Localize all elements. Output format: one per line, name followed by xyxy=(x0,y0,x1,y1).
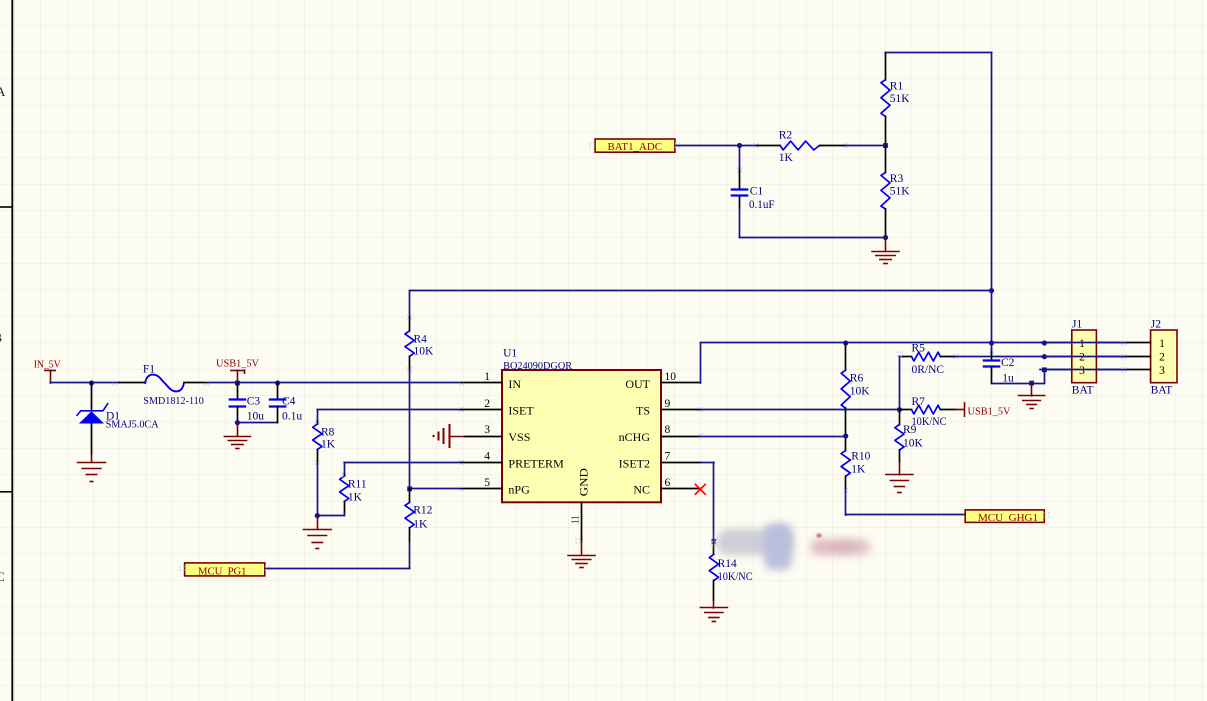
node J1 pin3 junction xyxy=(1042,367,1047,372)
ground under D1 xyxy=(91,454,93,462)
svg-text:C: C xyxy=(0,569,5,584)
svg-text:51K: 51K xyxy=(890,93,911,105)
svg-text:R10: R10 xyxy=(851,451,870,463)
svg-text:3: 3 xyxy=(1159,365,1165,377)
svg-text:BAT: BAT xyxy=(1151,385,1173,397)
wire C3-C4 bottom xyxy=(237,422,277,424)
svg-text:IN: IN xyxy=(508,377,521,391)
capacitor C3 xyxy=(237,383,239,399)
svg-text:BQ24090DGQR: BQ24090DGQR xyxy=(503,360,573,372)
svg-text:IN_5V: IN_5V xyxy=(34,359,61,370)
svg-text:R3: R3 xyxy=(890,173,904,185)
svg-text:1u: 1u xyxy=(1002,372,1014,384)
svg-text:1: 1 xyxy=(1079,338,1085,350)
ground under C3 xyxy=(237,423,239,437)
pin 5 nPG xyxy=(462,488,503,490)
svg-text:TS: TS xyxy=(636,404,650,418)
capacitor C4 xyxy=(277,383,279,399)
resistor R8 xyxy=(317,410,319,422)
wire R11 bottom to ground node xyxy=(344,513,346,515)
node J1 pin1 junction xyxy=(1042,340,1047,345)
node R14 junction xyxy=(712,539,717,544)
wire TS row xyxy=(701,409,900,411)
wire top battery rail xyxy=(885,52,887,53)
zone divider tick 1 xyxy=(0,206,12,208)
node D1 junction xyxy=(89,380,94,385)
wire R2-R1R3 xyxy=(846,145,886,147)
node TS junction xyxy=(897,407,902,412)
svg-text:0.1u: 0.1u xyxy=(282,411,302,423)
svg-text:A: A xyxy=(0,84,6,99)
wire input rail right xyxy=(208,382,462,384)
svg-text:PRETERM: PRETERM xyxy=(508,456,564,470)
svg-text:1K: 1K xyxy=(851,464,866,476)
svg-text:7: 7 xyxy=(665,451,671,463)
svg-text:1K: 1K xyxy=(413,519,428,531)
svg-text:10K: 10K xyxy=(850,386,871,398)
resistor R2 xyxy=(757,145,780,147)
pin 10 OUT xyxy=(661,382,701,384)
svg-text:SMAJ5.0CA: SMAJ5.0CA xyxy=(106,419,159,431)
resistor R1 xyxy=(885,54,887,80)
wire nPG to chip xyxy=(410,488,462,490)
power port USB1_5V xyxy=(231,370,245,372)
wire ISET2 to R14 xyxy=(701,462,714,464)
node J1 pin2 junction xyxy=(1042,354,1047,359)
svg-text:10K/NC: 10K/NC xyxy=(912,416,947,428)
svg-text:1K: 1K xyxy=(321,438,336,450)
resistor R7 xyxy=(901,409,912,411)
svg-text:11: 11 xyxy=(570,516,582,524)
wire OUT to battery row xyxy=(700,343,702,383)
earth symbol at VSS pin 3 xyxy=(449,436,464,438)
wire row2 overlay xyxy=(1040,356,1126,358)
svg-text:R4: R4 xyxy=(414,334,428,346)
svg-text:R5: R5 xyxy=(912,343,926,355)
resistor R5 xyxy=(903,356,912,358)
ground under pin 11 xyxy=(581,541,583,555)
node main vertical row1 junction xyxy=(989,340,994,345)
power port USB1_5V right xyxy=(955,409,964,411)
wire nCHG row xyxy=(701,436,846,438)
pin 8 nCHG xyxy=(661,436,701,438)
svg-text:F1: F1 xyxy=(143,364,155,376)
node main vertical junction xyxy=(989,288,994,293)
wire battery sense horizontal xyxy=(410,290,992,292)
ground under C2 xyxy=(1031,383,1033,396)
svg-text:C1: C1 xyxy=(750,186,764,198)
pin 2 ISET xyxy=(462,409,503,411)
svg-text:J2: J2 xyxy=(1151,318,1161,330)
svg-text:R11: R11 xyxy=(348,478,367,490)
wire row2 to J connectors xyxy=(955,356,1126,358)
wire row3 drop xyxy=(1044,370,1046,383)
wire row1 overlay xyxy=(1040,342,1126,344)
svg-text:ISET2: ISET2 xyxy=(619,456,650,470)
node R8/R11 ground junction xyxy=(315,513,320,518)
wire PRETERM to R11 xyxy=(344,462,461,464)
resistor R3 xyxy=(885,146,887,173)
wire row3 to J connectors xyxy=(1044,369,1126,371)
ground under R8 xyxy=(317,516,319,530)
pin 6 NC xyxy=(661,488,701,490)
node C2 ground junction xyxy=(1029,381,1034,386)
node nPG junction xyxy=(407,486,412,491)
svg-text:nPG: nPG xyxy=(508,483,530,497)
svg-text:8: 8 xyxy=(665,424,671,436)
node R6 top junction xyxy=(843,340,848,345)
svg-text:6: 6 xyxy=(665,477,671,489)
wire C2 bottom xyxy=(992,383,1045,385)
svg-text:10: 10 xyxy=(665,371,677,383)
J2 pin lines xyxy=(1126,342,1151,344)
op-amp U1 body BQ24090DGQR xyxy=(502,370,661,502)
grid snap markers xyxy=(112,380,117,385)
svg-text:10K/NC: 10K/NC xyxy=(718,571,753,583)
svg-text:USB1_5V: USB1_5V xyxy=(216,359,259,370)
resistor R6 xyxy=(845,344,847,370)
svg-text:GND: GND xyxy=(577,468,591,496)
node C1 junction xyxy=(737,143,742,148)
watermark blur blobs xyxy=(716,529,794,555)
svg-text:0R/NC: 0R/NC xyxy=(912,364,945,376)
svg-text:2: 2 xyxy=(1079,352,1085,364)
svg-text:R7: R7 xyxy=(912,396,926,408)
svg-text:3: 3 xyxy=(484,424,490,436)
sheet border line xyxy=(11,0,13,701)
pin 3 VSS xyxy=(465,436,503,438)
svg-text:MCU_PG1: MCU_PG1 xyxy=(198,565,247,577)
svg-text:R9: R9 xyxy=(903,424,917,436)
svg-text:VSS: VSS xyxy=(508,430,530,444)
node R3/C1 ground junction xyxy=(883,235,888,240)
svg-text:USB1_5V: USB1_5V xyxy=(968,407,1011,418)
svg-text:1K: 1K xyxy=(779,152,794,164)
svg-text:C3: C3 xyxy=(247,396,261,408)
svg-text:B: B xyxy=(0,330,3,345)
ground under R14 xyxy=(713,600,715,608)
pin 4 PRETERM xyxy=(462,462,503,464)
node R2/R1/R3 junction xyxy=(883,143,888,148)
svg-text:R8: R8 xyxy=(321,426,335,438)
svg-text:1K: 1K xyxy=(348,491,363,503)
no-connect X at pin 6 xyxy=(695,484,705,494)
svg-text:10K: 10K xyxy=(414,345,435,357)
wire input rail left xyxy=(50,382,119,384)
svg-text:3: 3 xyxy=(1079,365,1085,377)
wire R12 to MCU_PG1 xyxy=(409,541,411,568)
svg-text:U1: U1 xyxy=(503,347,517,359)
net label MCU_PG1 xyxy=(185,563,265,576)
node C3 junction xyxy=(235,381,240,386)
capacitor C1 xyxy=(739,146,741,171)
wire C1 bottom to ground node xyxy=(739,208,741,238)
svg-text:1: 1 xyxy=(1159,338,1165,350)
svg-text:9: 9 xyxy=(665,398,671,410)
wire R8 to ground node xyxy=(317,464,319,516)
fuse F1 xyxy=(119,382,145,384)
connector J2 xyxy=(1151,330,1177,383)
ground under R9 xyxy=(899,462,901,475)
svg-text:BAT1_ADC: BAT1_ADC xyxy=(608,141,663,153)
svg-text:ISET: ISET xyxy=(508,404,534,418)
svg-text:nCHG: nCHG xyxy=(619,430,651,444)
svg-text:4: 4 xyxy=(484,451,490,463)
wire R6-R10 through nCHG xyxy=(845,410,847,450)
svg-text:R2: R2 xyxy=(779,129,793,141)
zone divider tick 2 xyxy=(0,491,12,493)
svg-text:1: 1 xyxy=(484,371,490,383)
net label MCU_GHG1 xyxy=(965,510,1044,523)
svg-text:2: 2 xyxy=(1159,352,1165,364)
svg-text:OUT: OUT xyxy=(625,377,650,391)
diode D1 TVS xyxy=(91,383,93,410)
wire R10 to MCU_GHG1 xyxy=(845,489,847,515)
pin 9 TS xyxy=(661,409,701,411)
wire ISET to R8 xyxy=(317,409,461,411)
power port IN_5V xyxy=(45,370,55,372)
resistor R4 xyxy=(409,291,411,318)
resistor R12 xyxy=(409,489,411,503)
connector J1 xyxy=(1072,330,1097,383)
net label BAT1_ADC xyxy=(595,139,675,152)
svg-text:2: 2 xyxy=(484,398,490,410)
resistor R10 xyxy=(841,450,850,476)
svg-text:10u: 10u xyxy=(247,411,265,423)
svg-text:10K: 10K xyxy=(903,437,924,449)
wire row3 overlay xyxy=(1040,369,1126,371)
resistor R14 xyxy=(713,541,715,554)
svg-text:C2: C2 xyxy=(1001,357,1015,369)
resistor R11 xyxy=(344,462,346,474)
svg-text:R14: R14 xyxy=(718,558,737,570)
node C4 junction xyxy=(275,380,280,385)
resistor R9 xyxy=(899,410,901,425)
pin 11 GND xyxy=(581,502,583,541)
svg-text:R6: R6 xyxy=(850,373,864,385)
pin 1 IN xyxy=(462,382,503,384)
node C3 ground junction xyxy=(235,420,240,425)
svg-text:MCU_GHG1: MCU_GHG1 xyxy=(978,512,1038,524)
node nCHG junction xyxy=(843,433,848,438)
wire R5 left leg xyxy=(899,357,901,410)
svg-text:C4: C4 xyxy=(282,396,296,408)
svg-text:SMD1812-110: SMD1812-110 xyxy=(143,395,204,407)
svg-text:5: 5 xyxy=(484,477,490,489)
svg-text:BAT: BAT xyxy=(1072,385,1094,397)
svg-text:J1: J1 xyxy=(1072,318,1082,330)
svg-text:NC: NC xyxy=(633,483,650,497)
svg-text:R1: R1 xyxy=(890,80,904,92)
svg-text:51K: 51K xyxy=(890,185,911,197)
pin 7 ISET2 xyxy=(661,462,701,464)
wire R4 to nPG xyxy=(409,370,411,489)
svg-text:0.1uF: 0.1uF xyxy=(749,199,775,211)
capacitor C2 xyxy=(991,352,993,360)
svg-text:R12: R12 xyxy=(413,505,432,517)
wire BAT1_ADC row xyxy=(675,145,757,147)
ground under R3 xyxy=(885,238,887,252)
